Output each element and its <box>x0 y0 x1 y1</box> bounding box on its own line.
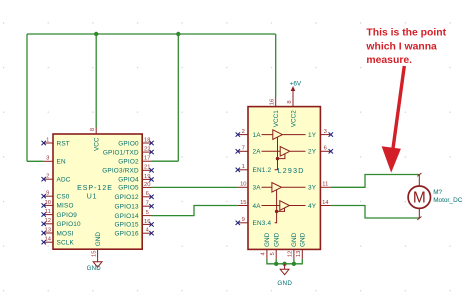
svg-text:GND: GND <box>291 232 298 247</box>
svg-text:L293D: L293D <box>278 168 305 175</box>
U2 pin 16 VCC1 <box>270 97 280 127</box>
svg-text:measure.: measure. <box>366 55 412 66</box>
svg-text:16: 16 <box>270 99 276 105</box>
svg-text:9: 9 <box>242 217 245 223</box>
U2 pin 5 GND <box>270 232 281 258</box>
svg-text:GND: GND <box>300 232 307 247</box>
svg-text:18: 18 <box>144 137 150 143</box>
svg-text:GND: GND <box>95 232 102 247</box>
IC U1 ESP-12E body <box>53 134 142 249</box>
U2 pin 4 GND <box>261 232 272 258</box>
svg-text:14: 14 <box>45 237 52 243</box>
svg-text:MOSI: MOSI <box>57 230 74 237</box>
wire U2 GND stub 5 <box>275 259 277 264</box>
U1 pin 8 VCC <box>90 128 100 152</box>
U1 pin 9 CS0 <box>42 191 70 201</box>
svg-text:1A: 1A <box>253 132 262 139</box>
svg-text:GPIO4: GPIO4 <box>118 177 139 184</box>
U1 pin 21 GPIO3/RXD <box>102 165 154 175</box>
wire 3Y to motor + <box>331 175 420 188</box>
svg-text:11: 11 <box>322 182 328 188</box>
svg-text:1Y: 1Y <box>308 132 317 139</box>
ground symbol at U2 <box>277 264 292 287</box>
U1 pin 20 GPIO5 <box>118 182 151 192</box>
U2 pin 2 1A <box>236 129 262 139</box>
svg-text:GND: GND <box>87 265 102 272</box>
junction rail-VCC <box>94 32 98 36</box>
svg-text:1: 1 <box>242 164 245 170</box>
U2 pin 9 EN3.4 <box>236 217 272 227</box>
svg-text:M?: M? <box>433 189 442 196</box>
svg-text:3A: 3A <box>253 185 262 192</box>
svg-text:6: 6 <box>324 146 327 152</box>
svg-text:11: 11 <box>45 209 51 215</box>
svg-text:2Y: 2Y <box>308 149 317 156</box>
wire VCC top rail <box>27 33 276 35</box>
U2 pin 12 GND <box>288 232 299 258</box>
svg-text:MISO: MISO <box>57 203 74 210</box>
svg-text:20: 20 <box>144 182 150 188</box>
wire U2 GND stub 12 <box>293 259 295 264</box>
svg-text:2A: 2A <box>253 149 262 156</box>
svg-text:4A: 4A <box>253 203 262 210</box>
U1 pin 1 RST <box>42 137 70 147</box>
junction rail-GPIO2 <box>176 32 180 36</box>
svg-text:GPIO1/TXD: GPIO1/TXD <box>103 149 139 156</box>
U1 pin 22 GPIO1/TXD <box>103 147 154 157</box>
U2 pin 13 GND <box>296 232 307 258</box>
svg-text:This is the point: This is the point <box>366 28 446 39</box>
motor M? Motor_DC <box>408 186 430 208</box>
svg-text:14: 14 <box>322 200 329 206</box>
U1 pin 5 GPIO14 <box>115 210 152 220</box>
svg-text:6: 6 <box>146 191 149 197</box>
svg-text:Motor_DC: Motor_DC <box>433 197 463 204</box>
U1 pin 12 GPIO10 <box>42 218 82 228</box>
U2 driver buffer 2 <box>262 147 306 157</box>
U1 pin 15 GND <box>91 232 102 259</box>
U1 pin 3 EN <box>44 156 66 166</box>
motor pin - (bottom) <box>417 208 421 220</box>
U2 pin 10 3A <box>238 182 261 192</box>
svg-text:15: 15 <box>240 200 246 206</box>
svg-text:13: 13 <box>296 251 302 257</box>
wire GPIO2 segment <box>152 160 179 162</box>
svg-text:GPIO9: GPIO9 <box>57 212 78 219</box>
svg-text:GND: GND <box>274 232 281 247</box>
junction GND bus center <box>282 262 286 266</box>
svg-text:2: 2 <box>46 174 49 180</box>
wire GPIO5 to 3A <box>152 186 238 188</box>
svg-text:3Y: 3Y <box>308 185 317 192</box>
svg-text:U1: U1 <box>87 193 98 200</box>
svg-text:12: 12 <box>45 218 51 224</box>
U1 pin 10 MISO <box>42 200 74 210</box>
svg-text:ADC: ADC <box>57 177 71 184</box>
U2 pin 6 2Y <box>308 146 333 156</box>
U1 pin 14 SCLK <box>42 237 75 247</box>
svg-text:GPIO13: GPIO13 <box>115 204 140 211</box>
svg-text:+6V: +6V <box>290 81 302 88</box>
svg-text:3: 3 <box>46 156 49 162</box>
wire 4Y to motor - <box>331 206 420 219</box>
U2 driver buffer 1 <box>262 130 306 140</box>
U2 driver buffer 4 <box>262 201 306 211</box>
U2 enable line EN1.2 <box>275 137 285 170</box>
svg-text:5: 5 <box>270 252 276 255</box>
wire rail to EN drop <box>26 34 28 161</box>
junction GND bus pin12 <box>292 262 296 266</box>
svg-text:16: 16 <box>144 219 150 225</box>
svg-text:RST: RST <box>57 140 70 147</box>
svg-text:ESP-12E: ESP-12E <box>77 185 113 192</box>
U1 pin 2 ADC <box>42 174 71 184</box>
U2 pin 11 3Y <box>308 182 331 192</box>
svg-text:EN1.2: EN1.2 <box>253 167 272 174</box>
svg-text:CS0: CS0 <box>57 194 70 201</box>
svg-text:4Y: 4Y <box>308 203 317 210</box>
wire GPIO14 to 4A <box>152 206 238 216</box>
U1 pin 18 GPIO0 <box>118 137 153 147</box>
svg-text:12: 12 <box>288 251 294 257</box>
svg-text:GND: GND <box>264 232 271 247</box>
U1 pin 16 GPIO15 <box>115 219 154 229</box>
IC U2 L293D body <box>248 107 320 250</box>
wire rail to U1 VCC <box>95 34 97 128</box>
svg-text:VCC1: VCC1 <box>273 110 280 127</box>
svg-text:GPIO16: GPIO16 <box>115 231 140 238</box>
motor pin + (top) <box>417 173 421 186</box>
svg-text:8: 8 <box>90 128 96 131</box>
svg-text:M: M <box>413 190 426 207</box>
svg-text:GPIO5: GPIO5 <box>118 185 139 192</box>
U2 pin 15 4A <box>238 200 261 210</box>
svg-text:EN: EN <box>57 159 66 166</box>
wire rail to U2 VCC1 <box>275 34 277 97</box>
svg-text:GPIO3/RXD: GPIO3/RXD <box>102 168 139 175</box>
svg-text:2: 2 <box>242 129 245 135</box>
svg-text:13: 13 <box>45 227 51 233</box>
svg-text:7: 7 <box>146 201 149 207</box>
annotation text <box>365 28 446 66</box>
svg-text:10: 10 <box>45 200 51 206</box>
U2 driver buffer 3 <box>262 183 306 193</box>
U1 pin 13 MOSI <box>42 227 74 237</box>
U2 pin 1 EN1.2 <box>236 164 272 174</box>
U2 pin 8 VCC2 <box>287 97 297 127</box>
wire rail to GPIO2 drop <box>177 34 179 161</box>
wire U2 GND bus <box>267 259 302 264</box>
svg-text:9: 9 <box>46 191 49 197</box>
svg-text:17: 17 <box>144 156 150 162</box>
annotation arrow <box>382 66 405 173</box>
svg-text:GPIO2: GPIO2 <box>118 159 139 166</box>
svg-text:which I wanna: which I wanna <box>365 41 437 52</box>
svg-text:GPIO12: GPIO12 <box>115 194 140 201</box>
U1 pin 11 GPIO9 <box>42 209 78 219</box>
U1 pin 19 GPIO4 <box>118 174 153 184</box>
svg-text:SCLK: SCLK <box>57 240 75 247</box>
svg-text:19: 19 <box>144 174 150 180</box>
svg-text:GPIO15: GPIO15 <box>115 222 140 229</box>
U1 pin 6 GPIO12 <box>115 191 154 201</box>
svg-text:EN3.4: EN3.4 <box>253 220 272 227</box>
U2 pin 14 4Y <box>308 200 331 210</box>
svg-text:5: 5 <box>146 210 149 216</box>
svg-text:21: 21 <box>144 165 150 171</box>
svg-text:22: 22 <box>144 147 150 153</box>
wire EN segment <box>27 160 44 162</box>
power symbol +6V <box>290 81 302 97</box>
U2 pin 7 2A <box>236 146 262 156</box>
svg-text:VCC: VCC <box>94 137 101 151</box>
svg-text:15: 15 <box>91 251 97 257</box>
svg-text:GND: GND <box>277 280 292 287</box>
U1 pin 17 GPIO2 <box>118 156 151 166</box>
svg-text:1: 1 <box>46 137 49 143</box>
svg-text:GPIO0: GPIO0 <box>118 140 139 147</box>
svg-text:10: 10 <box>240 182 246 188</box>
svg-text:8: 8 <box>287 100 293 103</box>
U1 pin 7 GPIO13 <box>115 201 154 211</box>
U1 pin 4 GPIO16 <box>115 228 154 238</box>
U2 enable line EN3.4 <box>275 190 285 223</box>
svg-text:GPIO14: GPIO14 <box>115 213 140 220</box>
junction GND bus pin5 <box>274 262 278 266</box>
svg-text:7: 7 <box>242 146 245 152</box>
svg-text:VCC2: VCC2 <box>290 110 297 127</box>
U2 pin 3 1Y <box>308 129 333 139</box>
svg-text:3: 3 <box>324 129 327 135</box>
svg-text:GPIO10: GPIO10 <box>57 221 82 228</box>
ground symbol at U1 <box>87 259 102 272</box>
